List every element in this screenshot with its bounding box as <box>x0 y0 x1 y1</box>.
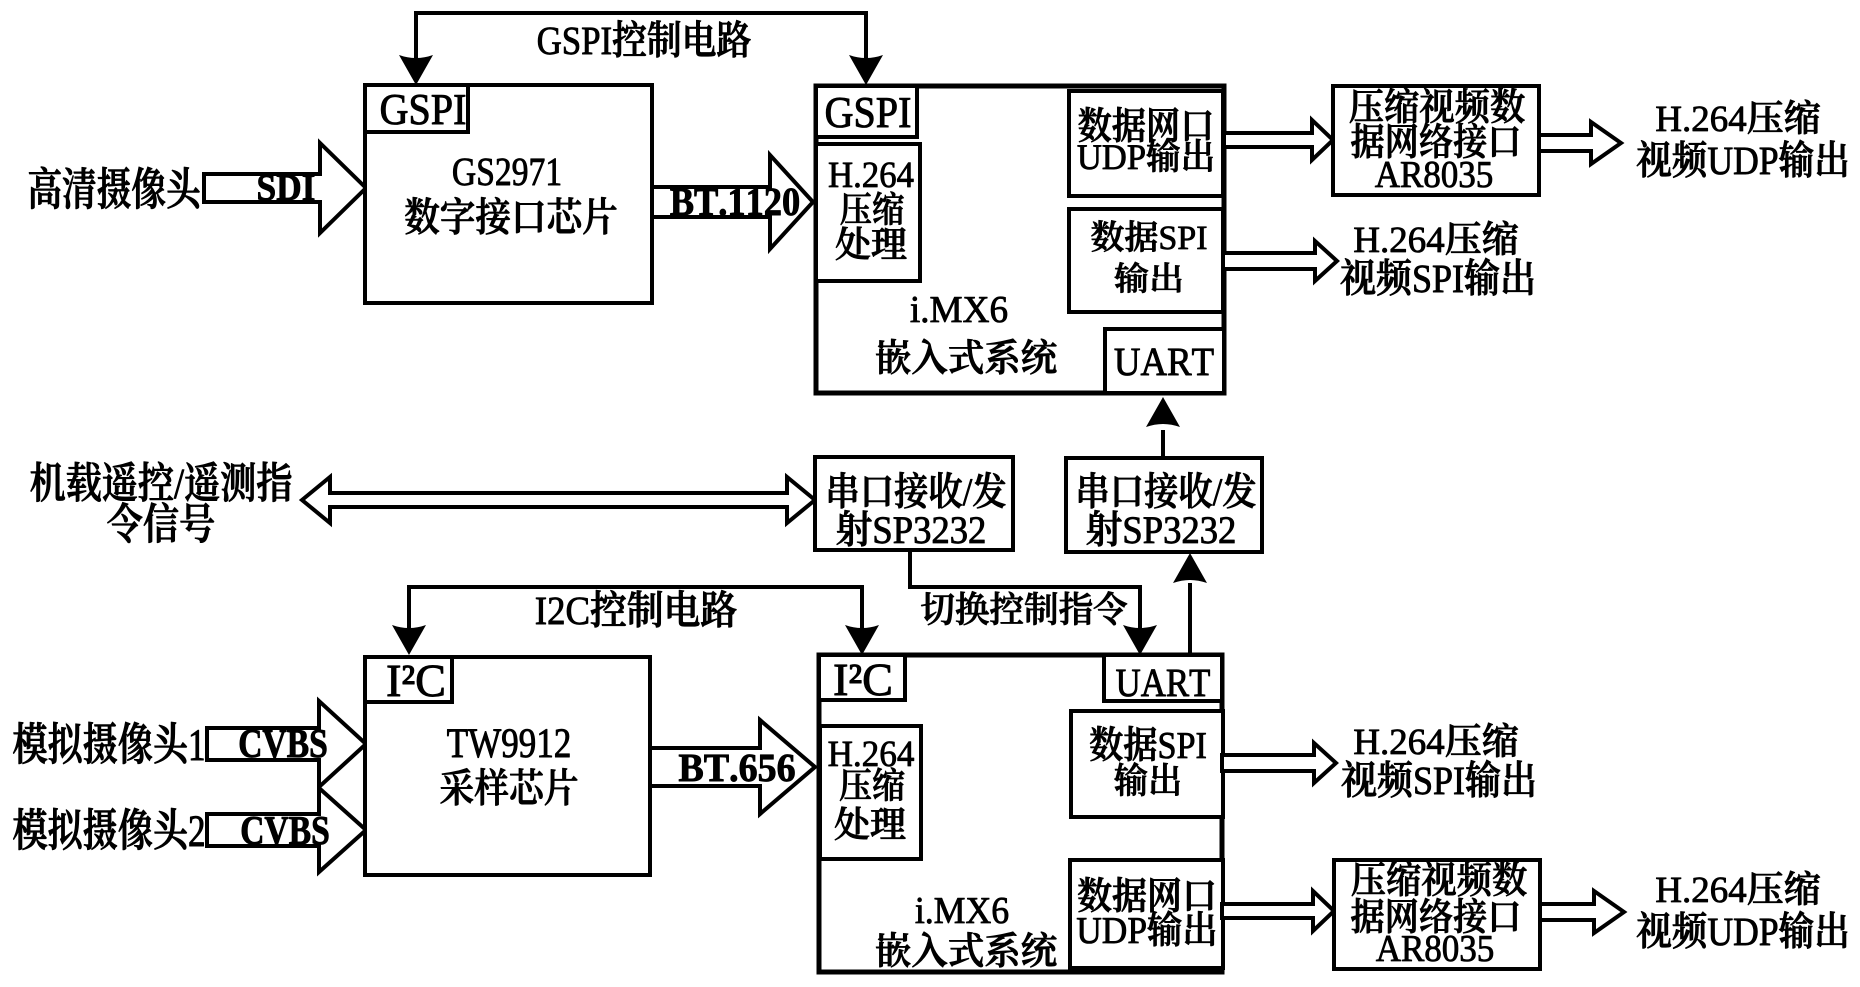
wire bottom-UART up to SP3232#2 <box>1188 583 1192 655</box>
label 据网络接口 (bottom) <box>1351 898 1518 933</box>
label i.MX6 (bottom) <box>916 898 1008 924</box>
net label 视频UDP输出 (top) line2 <box>1637 140 1847 178</box>
thin arrow AR8035 output (top) <box>1539 122 1621 164</box>
pin label GSPI #1 <box>381 95 465 125</box>
arrowhead into GS2971 GSPI <box>399 55 433 85</box>
pin box GSPI on GS2971 <box>365 85 468 132</box>
label 压缩 (bottom) <box>840 768 904 801</box>
wire GSPI control circuit <box>416 13 866 62</box>
pin box UART (top) <box>1105 329 1224 393</box>
arrowhead into TW9912 I2C <box>392 625 426 655</box>
sub-box data-net UDP output (top) <box>1069 91 1223 196</box>
label 压缩 (top) <box>841 192 904 225</box>
net label H.264压缩 (UDP bottom) line1 <box>1656 871 1820 905</box>
net label 视频SPI输出 (bottom) line2 <box>1342 760 1535 798</box>
thin arrow AR8035 output (bottom) <box>1540 891 1624 933</box>
label TW9912 <box>447 729 569 757</box>
label 嵌入式系统 (bottom) <box>876 932 1056 968</box>
arrowhead up into top UART <box>1146 397 1180 427</box>
thin arrow SPI out (top) <box>1223 241 1337 281</box>
box U2 i.MX6 embedded system (top) <box>816 86 1224 393</box>
node label 模拟摄像头2 <box>13 808 203 850</box>
sub-box H.264 compression (top) <box>816 144 920 281</box>
label 数字接口芯片 <box>405 197 616 234</box>
box U3 AR8035 network interface (top) <box>1333 86 1539 195</box>
label 射SP3232 #2 <box>1087 510 1235 546</box>
box U5 SP3232 serial transceiver #2 <box>1066 458 1262 552</box>
label 串口接收/发 #2 <box>1079 472 1255 508</box>
label 数据SPI (bottom) <box>1090 726 1206 761</box>
net label H.264压缩 (SPI top) line1 <box>1354 221 1518 255</box>
block arrow CVBS #1 <box>207 701 366 787</box>
block arrow SDI input <box>204 143 366 233</box>
label AR8035 (bottom) <box>1376 936 1493 962</box>
pin label I2C #2 <box>835 665 891 696</box>
label 数据网口 (bottom) <box>1078 877 1214 912</box>
pin label GSPI #2 <box>826 98 910 128</box>
pin label UART (top) <box>1115 349 1214 376</box>
label 据网络接口 (top) <box>1351 123 1518 158</box>
wire switch-control from SP3232#1 to bottom UART <box>910 551 1140 632</box>
label BT.656 <box>679 755 794 782</box>
label H.264 (bottom-left) <box>829 742 914 767</box>
label H.264 (top-left) <box>829 163 913 188</box>
label UDP输出 (bottom) <box>1077 911 1215 947</box>
pin label UART (bottom) <box>1116 670 1209 697</box>
node label 模拟摄像头1 <box>13 722 203 764</box>
box U1 GS2971 digital interface chip <box>365 85 652 303</box>
node label 令信号 line2 <box>107 502 213 542</box>
node label 机载遥控/遥测指 line1 <box>31 462 292 502</box>
node label HD-camera 高清摄像头 <box>29 167 199 209</box>
net label 切换控制指令 <box>921 591 1127 625</box>
label 输出 (bottom) <box>1114 762 1179 796</box>
label 嵌入式系统 (top) <box>876 339 1056 375</box>
label GS2971 <box>453 159 560 186</box>
label 数据网口 (top) <box>1079 107 1212 142</box>
label 处理 (bottom) <box>835 807 906 841</box>
block arrow BT.656 <box>650 720 815 814</box>
pin box I2C on i.MX6 <box>819 655 905 700</box>
thin arrow UDP out to AR8035 (top) <box>1224 120 1333 160</box>
label i.MX6 (top) <box>911 297 1007 323</box>
box U6 TW9912 sampling chip <box>365 657 650 875</box>
pin box GSPI on i.MX6 <box>816 86 917 137</box>
label UDP输出 (top) <box>1078 138 1213 172</box>
block arrow BT.1120 <box>652 155 813 249</box>
net label 视频UDP输出 (bottom) line2 <box>1637 911 1847 949</box>
double block arrow telemetry bus <box>302 477 815 523</box>
sub-box data SPI output (top) <box>1069 209 1223 312</box>
arrowhead into i.MX6 GSPI <box>849 55 883 85</box>
label SDI <box>258 175 314 201</box>
label 处理 (top) <box>836 227 907 261</box>
sub-box H.264 compression (bottom) <box>820 726 921 859</box>
label 数据SPI (top) <box>1091 220 1206 252</box>
label 输出 (top) <box>1115 262 1182 293</box>
sub-box data SPI output (bottom) <box>1071 711 1223 817</box>
label 压缩视频数 (bottom) <box>1352 861 1527 897</box>
arrowhead into bottom i.MX6 I2C <box>845 625 879 655</box>
box U7 i.MX6 embedded system (bottom) <box>819 655 1222 972</box>
pin box I2C on TW9912 <box>365 657 452 702</box>
label CVBS #2 <box>242 817 329 845</box>
thin arrow UDP out to AR8035 (bottom) <box>1222 891 1334 931</box>
net label 视频SPI输出 (top) line2 <box>1341 258 1534 296</box>
label CVBS #1 <box>240 730 327 758</box>
box U4 SP3232 serial transceiver #1 <box>815 457 1013 550</box>
wire SP3232#2 to top UART <box>1161 430 1165 458</box>
net label GSPI控制电路 <box>538 20 750 57</box>
net label I2C控制电路 <box>536 590 736 627</box>
box U8 AR8035 network interface (bottom) <box>1334 860 1540 969</box>
label 采样芯片 <box>441 768 578 805</box>
pin box UART (bottom) <box>1104 655 1222 701</box>
net label H.264压缩 (SPI bottom) line1 <box>1354 723 1518 757</box>
arrowhead down into bottom UART <box>1123 625 1157 655</box>
thin arrow SPI out (bottom) <box>1222 743 1336 783</box>
block arrow CVBS #2 <box>207 788 366 872</box>
label 压缩视频数 (top) <box>1350 88 1525 124</box>
sub-box data-net UDP output (bottom) <box>1070 860 1223 968</box>
wire I2C control circuit <box>409 587 862 632</box>
label 射SP3232 #1 <box>837 510 985 546</box>
net label H.264压缩 (UDP top) line1 <box>1656 100 1820 134</box>
label BT.1120 <box>670 188 798 215</box>
label 串口接收/发 #1 <box>829 472 1005 508</box>
label AR8035 (top) <box>1375 162 1492 188</box>
arrowhead up into SP3232#2 <box>1173 553 1207 583</box>
pin label I2C #1 <box>388 666 444 697</box>
